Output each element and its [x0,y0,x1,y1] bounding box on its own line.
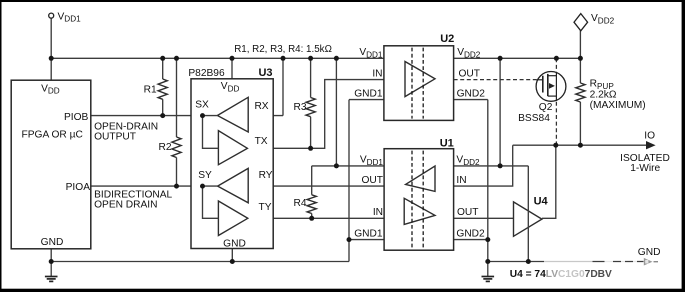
svg-text:RY: RY [259,170,273,181]
svg-text:PIOA: PIOA [66,182,91,193]
svg-text:P82B96: P82B96 [188,68,225,79]
svg-text:OUT: OUT [361,175,383,186]
svg-text:GND: GND [41,237,64,248]
svg-text:GND1: GND1 [354,88,383,99]
svg-text:IO: IO [644,131,655,142]
svg-text:PIOB: PIOB [64,112,89,123]
svg-text:OPEN DRAIN: OPEN DRAIN [94,200,157,211]
svg-text:GND1: GND1 [354,228,383,239]
svg-text:IN: IN [372,68,382,79]
svg-text:TY: TY [258,202,271,213]
svg-text:R1: R1 [144,84,157,95]
svg-text:SY: SY [198,170,212,181]
svg-text:R1, R2, R3, R4: 1.5kΩ: R1, R2, R3, R4: 1.5kΩ [234,44,332,55]
svg-text:R2: R2 [159,142,172,153]
svg-text:OUT: OUT [459,68,481,79]
svg-text:U3: U3 [258,67,272,79]
svg-text:OUTPUT: OUTPUT [94,131,136,142]
svg-text:R4: R4 [294,198,307,209]
svg-text:U4 = 74LVC1G07DBV: U4 = 74LVC1G07DBV [510,269,612,280]
svg-text:1-Wire: 1-Wire [630,163,660,174]
svg-text:U1: U1 [440,138,454,150]
svg-text:SX: SX [195,100,209,111]
svg-text:IN: IN [456,175,466,186]
svg-text:U4: U4 [534,196,549,208]
svg-text:GND: GND [223,238,246,249]
svg-text:BSS84: BSS84 [518,113,550,124]
svg-text:U2: U2 [440,33,454,45]
svg-text:TX: TX [255,136,268,147]
svg-text:OUT: OUT [457,207,479,218]
svg-text:GND2: GND2 [456,228,485,239]
svg-text:Q2: Q2 [539,102,553,113]
svg-text:IN: IN [373,207,383,218]
svg-text:FPGA OR µC: FPGA OR µC [22,129,83,140]
svg-text:GND2: GND2 [457,88,486,99]
svg-text:RX: RX [254,101,268,112]
svg-text:R3: R3 [294,102,307,113]
svg-text:(MAXIMUM): (MAXIMUM) [590,100,646,111]
